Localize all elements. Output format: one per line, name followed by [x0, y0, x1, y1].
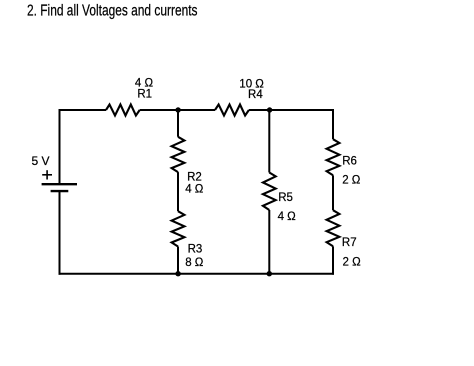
- svg-text:R4: R4: [248, 89, 263, 101]
- title text: [27, 2, 198, 19]
- wire: bottom rail: [59, 273, 335, 275]
- battery V1 5V: negative plate: [51, 190, 69, 192]
- resistor R3: [172, 211, 185, 246]
- resistor R4: [215, 105, 249, 116]
- label R1: [137, 88, 152, 100]
- wire: top middle (R1 to R4): [140, 109, 215, 111]
- label R7 value 2 ohm: [343, 257, 362, 269]
- svg-text:R1: R1: [137, 88, 152, 100]
- svg-text:2 Ω: 2 Ω: [342, 175, 361, 187]
- wire: R2 to R3: [177, 172, 179, 211]
- wire: R5 branch top: [268, 110, 270, 173]
- label R4 value 10 ohm: [239, 79, 264, 91]
- svg-text:R5: R5: [278, 192, 293, 204]
- resistor R7: [327, 210, 340, 246]
- node B (R4 right, top of R5 branch): [267, 107, 272, 112]
- label R6 value 2 ohm: [342, 175, 361, 187]
- svg-text:R3: R3: [188, 244, 203, 256]
- resistor R6: [327, 139, 340, 175]
- svg-text:2 Ω: 2 Ω: [343, 257, 362, 269]
- svg-text:4 Ω: 4 Ω: [278, 211, 297, 223]
- wire: R6 to R7: [332, 175, 334, 210]
- resistor R2: [172, 137, 185, 172]
- wire: R3 branch bottom: [177, 247, 179, 274]
- wire: top right (R4 to right corner): [249, 109, 334, 111]
- label R2: [187, 171, 202, 183]
- resistor R1: [106, 105, 140, 116]
- wire: left upper (to battery): [59, 109, 61, 184]
- svg-text:2. Find all Voltages and curre: 2. Find all Voltages and currents: [27, 2, 198, 19]
- wire: right lower (R7 to bottom corner): [332, 246, 334, 274]
- wire: left lower (battery to bottom): [59, 191, 61, 275]
- node D (bottom of R5 branch): [267, 271, 272, 276]
- resistor R5: [263, 173, 276, 211]
- label R5: [278, 192, 293, 204]
- wire: R5 branch bottom: [268, 210, 270, 274]
- svg-text:R2: R2: [187, 171, 202, 183]
- battery V1 5V: positive plate: [42, 183, 77, 185]
- label R3: [188, 244, 203, 256]
- svg-text:4 Ω: 4 Ω: [185, 183, 204, 195]
- label battery 5 V: [32, 154, 50, 168]
- svg-text:R7: R7: [342, 237, 357, 249]
- battery plus polarity sign: [42, 170, 52, 179]
- label R1 value 4 ohm: [135, 78, 154, 90]
- label R4: [248, 89, 263, 101]
- wire: R2 branch top: [177, 110, 179, 137]
- node C (bottom of R3 branch): [175, 271, 180, 276]
- label R5 value 4 ohm: [278, 211, 297, 223]
- label R7: [342, 237, 357, 249]
- node A (R1/R4 junction, top of R2 branch): [175, 107, 180, 112]
- label R2 value 4 ohm: [185, 183, 204, 195]
- svg-text:R6: R6: [342, 155, 357, 167]
- label R6: [342, 155, 357, 167]
- wire: right upper (top corner to R6): [332, 109, 334, 139]
- wire: top left (battery to R1): [59, 109, 107, 111]
- svg-text:8 Ω: 8 Ω: [185, 257, 204, 269]
- label R3 value 8 ohm: [185, 257, 204, 269]
- svg-text:5 V: 5 V: [32, 154, 50, 168]
